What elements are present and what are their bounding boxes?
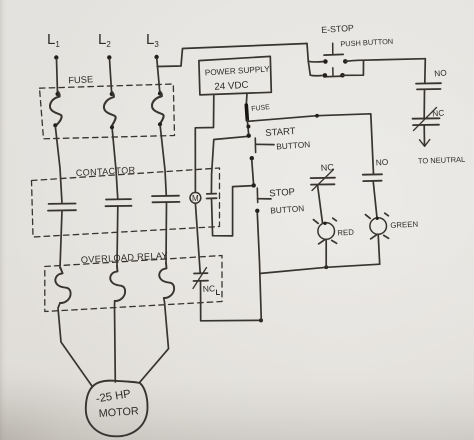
wire PS right terminal [245,94,248,105]
wire lamp bus [261,264,380,273]
contactor coil M [190,192,201,203]
wire green lamp down [378,234,380,264]
fuse F2 [104,92,116,128]
label GREEN [390,220,418,230]
wire [423,89,425,118]
NO contact right rail [416,83,441,89]
wire [116,206,119,266]
junction dot [110,92,114,96]
junction dot [53,123,57,127]
wire aux bottom seal-in [212,186,254,236]
pole 1 stem [332,43,334,54]
overload NC contact [193,268,208,289]
NC contact right rail [413,108,440,131]
wire feed to E-stop [307,44,323,62]
svg-text:TO NEUTRAL: TO NEUTRAL [418,155,466,166]
overload heater 2 [110,266,125,301]
NC contact red branch [311,170,335,191]
wire branch to lamp rail [248,114,374,175]
label STOP BUTTON [269,187,305,216]
wire PS left to coil [195,96,214,193]
node L3 [146,31,159,49]
label NC red branch [320,162,334,173]
pole 2 contacts [323,73,328,78]
motor M1 [86,381,148,437]
svg-text:START: START [265,126,296,139]
label START BUTTON [265,126,311,152]
power supply box [199,56,271,95]
svg-text:NC: NC [432,107,445,118]
svg-text:NO: NO [375,157,389,168]
label OVERLOAD RELAY [81,250,169,265]
label POWER SUPPLY 24 VDC [205,65,271,93]
contactor box (dashed) [32,168,220,237]
wire start to stop [252,160,254,183]
svg-text:M: M [192,194,199,203]
overload heater 3 [159,263,174,298]
wire L3 branch to control [157,44,307,67]
svg-text:NC: NC [202,283,215,294]
wire to motor [140,298,169,382]
fuse F3 [152,92,164,125]
label TO NEUTRAL [418,155,466,166]
junction dot [158,122,162,126]
node L1 [47,31,60,49]
wire feed lower pole [308,61,322,76]
wire E-stop out bottom loop [343,61,364,76]
wire coil to OL contact [195,203,200,273]
label NO green branch [375,157,389,168]
contactor auxiliary contact [207,194,217,199]
pole 2 stem [332,68,334,76]
wire [60,211,62,269]
terminal L1 [54,55,58,59]
control fuse [246,105,247,120]
wire L2 drop [110,59,112,94]
pole 2 bar [324,75,343,78]
junction dot [110,125,114,129]
label RED [337,228,354,238]
wire L1 to contactor [55,127,62,204]
contactor main contact 1 [48,204,76,211]
contactor main contact 3 [152,196,180,203]
junction dot [158,92,162,96]
junction dot [315,114,319,118]
lamp GREEN [365,213,388,239]
lamp RED [313,218,336,244]
wire [165,202,168,263]
svg-text:NO: NO [434,67,448,78]
junction dot [56,92,60,96]
wire bottom control [201,319,262,322]
wire L3 to contactor [160,126,166,196]
wire E-stop out top [345,59,425,62]
node L2 [98,31,111,49]
svg-text:24 VDC: 24 VDC [214,80,249,93]
pole 1 bar [324,53,343,56]
wire L2 to contactor [112,129,118,199]
wire L3 drop [157,59,160,94]
wire to neutral arrow [420,125,430,146]
label FUSE [68,74,93,85]
junction blob [259,318,263,322]
overload heater 1 [55,268,70,303]
label NO [434,67,448,78]
wire stop down [257,213,261,320]
wire to motor [58,303,92,387]
svg-text:FUSE: FUSE [68,74,93,85]
wire aux top to start node [211,136,250,194]
fuse F1 [50,92,62,127]
contactor main contact 2 [106,199,132,206]
fuse box (dashed) [40,84,175,139]
junction dot [324,265,328,269]
wire NC to red lamp [318,185,323,223]
label FUSE [251,104,271,113]
wire L1 drop [57,59,58,94]
svg-text:RED: RED [337,228,354,238]
terminal L3 [154,55,158,59]
wire fuse to start [247,120,248,134]
label CONTACTOR [76,165,136,178]
NO contact green branch [363,174,382,181]
label NC [432,107,445,118]
wire red lamp down [325,239,327,267]
stop button [252,183,272,213]
svg-text:GREEN: GREEN [390,220,418,230]
start button [247,134,275,161]
overload relay box (dashed) [45,256,222,312]
wire NO to green lamp [373,181,377,218]
label NC [202,283,219,294]
pole 1 contacts [323,59,328,64]
wire to motor [114,301,117,382]
svg-text:STOP: STOP [269,187,295,200]
junction dot [246,125,250,129]
E-stop push button [323,43,348,77]
terminal L2 [107,55,111,59]
wire OL contact down [200,281,202,321]
wire right rail [424,59,427,83]
E-stop label [321,23,393,49]
